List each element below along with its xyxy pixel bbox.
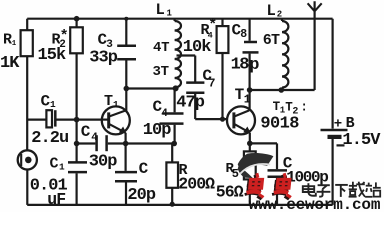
svg-text:C: C <box>139 160 149 178</box>
watermark text zai (download 2) <box>349 182 365 197</box>
node junction T2 emitter <box>247 141 253 147</box>
node junction L2 bottom <box>279 87 285 93</box>
node junction L1 bottom <box>173 85 179 91</box>
transistor T1 9018 <box>102 89 130 144</box>
node junction R2 top <box>74 16 80 22</box>
capacitor C4 30p <box>81 123 175 172</box>
microphone BM <box>18 150 37 205</box>
resistor R4 10k <box>183 17 229 119</box>
antenna <box>308 1 322 90</box>
capacitor C3 33p <box>89 19 136 89</box>
wire T2 base wire <box>195 118 227 120</box>
svg-text:47p: 47p <box>176 94 205 113</box>
svg-text:T: T <box>104 93 113 110</box>
svg-text:20p: 20p <box>127 186 156 205</box>
svg-text:C: C <box>50 156 59 173</box>
text T1 T2: 9018 <box>260 100 308 134</box>
svg-text:33p: 33p <box>89 48 118 67</box>
svg-text:1: 1 <box>244 93 251 106</box>
svg-text:+: + <box>334 117 342 133</box>
svg-text:www.eeworm.com: www.eeworm.com <box>249 196 381 212</box>
resistor R5 56ohm <box>216 143 256 205</box>
svg-text:C: C <box>81 123 91 141</box>
node junction emitter right <box>171 141 177 147</box>
wire collector T2 to L2 to antenna <box>250 89 315 91</box>
svg-text:4T: 4T <box>153 40 169 56</box>
svg-text:L: L <box>156 1 165 19</box>
watermark bug char 1 <box>244 173 266 199</box>
svg-text:9018: 9018 <box>260 115 299 134</box>
capacitor C 20p <box>115 144 156 205</box>
svg-text:8: 8 <box>240 28 247 41</box>
svg-text:uF: uF <box>47 190 65 209</box>
capacitor C4 10p <box>143 89 184 144</box>
svg-text:18: 18 <box>231 56 250 75</box>
svg-text:3T: 3T <box>153 64 169 80</box>
node junction C3 top <box>124 17 128 21</box>
svg-text:2: 2 <box>277 9 282 19</box>
watermark bug char 2 <box>272 173 294 199</box>
node junction R4 base <box>220 117 225 122</box>
resistor R2 15k <box>38 19 83 163</box>
watermark text dian (electron 1) <box>303 183 316 196</box>
wire T2 emitter node <box>250 142 277 144</box>
svg-text:1: 1 <box>59 162 65 173</box>
wire emitter feedback wire y143.5 <box>77 142 96 144</box>
svg-text:1000p: 1000p <box>286 169 328 187</box>
node junction collector T1 <box>124 86 130 92</box>
svg-text:1K: 1K <box>0 54 20 73</box>
node junction base node x77 <box>74 117 80 123</box>
node junction emitter T1 <box>123 141 129 147</box>
wire base wire left (mic/C1 to T1 base) <box>27 118 46 120</box>
svg-text:10p: 10p <box>143 121 172 140</box>
capacitor C8 18p <box>231 19 260 90</box>
inductor L2 6T <box>263 2 289 90</box>
svg-text:1: 1 <box>12 40 17 48</box>
node junction R200 bottom <box>170 202 175 207</box>
capacitor C1 0.01uF <box>30 156 87 210</box>
svg-text:200Ω: 200Ω <box>178 175 215 194</box>
node junction C8 collector <box>247 87 253 93</box>
watermark text zi (electron 2) <box>317 185 331 196</box>
wire L1 tap to C7 <box>177 54 196 56</box>
watermark text zhan (site) <box>365 182 381 196</box>
resistor R1 <box>0 19 33 151</box>
resistor R 200ohm <box>166 144 215 205</box>
svg-text:C: C <box>41 93 51 111</box>
svg-text:B: B <box>346 115 355 132</box>
svg-text:1: 1 <box>50 99 56 110</box>
inductor L1 (4T+3T) <box>153 1 182 89</box>
svg-text:L: L <box>267 2 276 20</box>
capacitor C7 47p <box>176 56 215 120</box>
wire collector node T1 to L1 <box>126 87 175 89</box>
svg-text:30p: 30p <box>89 153 118 172</box>
node junction feedback left <box>74 141 80 147</box>
wire top supply rail <box>27 18 332 20</box>
svg-text:1: 1 <box>113 99 119 110</box>
wire bottom ground rail <box>27 204 332 206</box>
capacitor C 1000p <box>268 143 329 205</box>
svg-text:7: 7 <box>208 76 215 90</box>
svg-text:15k: 15k <box>38 46 67 65</box>
svg-text:R: R <box>3 32 12 49</box>
svg-text:56Ω: 56Ω <box>216 182 244 201</box>
watermark swoosh logo <box>238 153 274 178</box>
svg-text:4: 4 <box>91 132 98 144</box>
svg-text:2.2u: 2.2u <box>31 129 68 148</box>
watermark text xia (download 1) <box>335 185 348 197</box>
svg-text:1: 1 <box>167 9 173 19</box>
transistor T2 9018 <box>227 86 255 143</box>
svg-text:1.5V: 1.5V <box>342 131 381 150</box>
svg-text:p: p <box>249 56 259 75</box>
svg-text:10k: 10k <box>183 38 212 57</box>
battery B 1.5V <box>321 19 382 205</box>
svg-text:4: 4 <box>161 108 168 120</box>
capacitor C1 2.2u electrolytic <box>31 93 102 148</box>
svg-text:6T: 6T <box>263 32 280 49</box>
svg-text::: : <box>300 100 308 114</box>
